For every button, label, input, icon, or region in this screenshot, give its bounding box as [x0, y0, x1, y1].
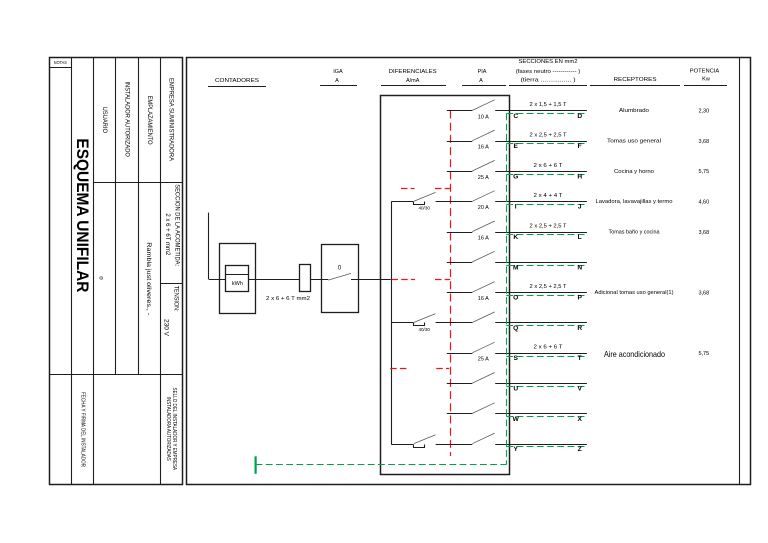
svg-text:o: o — [98, 276, 105, 280]
earth conductor row 7 (green dashed) — [506, 295, 587, 297]
svg-text:Z: Z — [578, 446, 582, 453]
svg-text:kWh: kWh — [232, 281, 243, 287]
svg-text:Adicional tomas uso general(1): Adicional tomas uso general(1) — [595, 290, 674, 296]
svg-text:0: 0 — [338, 265, 342, 271]
svg-text:2 x 2,5 + 2,5 T: 2 x 2,5 + 2,5 T — [530, 133, 568, 139]
svg-text:EMPLAZAMIENTO: EMPLAZAMIENTO — [146, 96, 153, 145]
svg-text:2 x 2,5 + 2,5 T: 2 x 2,5 + 2,5 T — [530, 223, 568, 229]
svg-text:M: M — [513, 264, 519, 271]
svg-text:PIA: PIA — [478, 69, 487, 75]
main branch switch — [391, 444, 413, 446]
earth conductor row 6 (green dashed) — [506, 265, 587, 267]
wire: entrance to meter — [209, 279, 226, 281]
earth conductor row 11 (green dashed) — [506, 416, 587, 418]
earth electrode — [255, 456, 257, 474]
phase bus — [391, 202, 393, 444]
svg-text:2 x 6 + 6 T mm2: 2 x 6 + 6 T mm2 — [266, 296, 310, 302]
svg-text:2 x 1,5 + 1,5 T: 2 x 1,5 + 1,5 T — [530, 102, 568, 108]
svg-text:25 A: 25 A — [478, 357, 489, 363]
svg-text:X: X — [577, 416, 582, 423]
svg-text:Rambla just oliveres., -: Rambla just oliveres., - — [145, 242, 152, 315]
branch circuit row 7: PIA breaker — [447, 292, 473, 294]
svg-text:FECHA Y FIRMA DEL INSTALADOR: FECHA Y FIRMA DEL INSTALADOR — [79, 392, 85, 467]
svg-text:2 x 4 + 4 T: 2 x 4 + 4 T — [534, 193, 564, 199]
svg-text:V: V — [577, 386, 582, 393]
branch circuit row 6: PIA breaker — [447, 262, 473, 264]
svg-text:Q: Q — [513, 325, 518, 332]
svg-text:N: N — [577, 264, 582, 271]
svg-text:DIFERENCIALES: DIFERENCIALES — [389, 69, 437, 75]
svg-text:3,68: 3,68 — [698, 290, 709, 296]
svg-text:Alumbrado: Alumbrado — [619, 108, 649, 114]
svg-text:J: J — [578, 204, 582, 211]
svg-text:3,68: 3,68 — [698, 230, 709, 236]
earth conductor row 3 (green dashed) — [506, 174, 587, 176]
svg-text:P: P — [577, 295, 582, 302]
svg-text:U: U — [513, 386, 518, 393]
svg-text:Kw: Kw — [702, 77, 710, 83]
svg-text:INSTALADORA AUTORIZADAS: INSTALADORA AUTORIZADAS — [165, 397, 171, 462]
svg-text:G: G — [513, 173, 518, 180]
meter kWh — [226, 266, 249, 292]
earth conductor row 12 (green dashed) — [506, 446, 587, 448]
switch IGA blade — [328, 273, 351, 280]
distribution panel enclosure — [381, 96, 510, 475]
svg-text:10 A: 10 A — [478, 114, 489, 120]
svg-text:16 A: 16 A — [478, 296, 489, 302]
svg-text:S: S — [513, 355, 518, 362]
svg-text:20 A: 20 A — [478, 205, 489, 211]
svg-text:L: L — [578, 234, 582, 241]
svg-text:Y: Y — [513, 446, 518, 453]
svg-text:C: C — [513, 113, 518, 120]
earth conductor row 10 (green dashed) — [506, 386, 587, 388]
earth conductor row 8 (green dashed) — [506, 325, 587, 327]
svg-text:Tomas baño y cocina: Tomas baño y cocina — [609, 229, 661, 235]
branch circuit row 2: PIA breaker — [447, 141, 473, 143]
svg-text:Lavadora, lavavajillas y termo: Lavadora, lavavajillas y termo — [596, 199, 673, 205]
svg-text:(tierra ................ ): (tierra ................ ) — [521, 78, 576, 84]
svg-text:K: K — [513, 234, 518, 241]
earth conductor row 4 (green dashed) — [506, 204, 587, 206]
differential breaker 40/30 — [391, 322, 413, 324]
branch circuit row 11: PIA breaker — [447, 413, 473, 415]
svg-text:I: I — [515, 204, 517, 211]
svg-text:2,30: 2,30 — [698, 109, 709, 115]
fuse F1 — [300, 265, 311, 292]
branch circuit row 8: PIA breaker — [472, 312, 494, 323]
svg-text:CONTADORES: CONTADORES — [215, 78, 259, 84]
svg-text:W: W — [513, 416, 520, 423]
svg-text:RECEPTORES: RECEPTORES — [614, 77, 657, 83]
svg-text:D: D — [577, 113, 582, 120]
svg-text:4,60: 4,60 — [698, 200, 709, 206]
svg-text:SECCIONES EN mm2: SECCIONES EN mm2 — [519, 59, 578, 65]
svg-text:5,75: 5,75 — [698, 351, 709, 357]
wire: IGA to bus — [351, 279, 391, 281]
neutral bus (red dashed) — [450, 111, 452, 457]
differential breaker 40/30 — [391, 201, 413, 203]
svg-text:POTENCIA: POTENCIA — [690, 69, 720, 75]
svg-text:3,68: 3,68 — [698, 139, 709, 145]
earth conductor row 9 (green dashed) — [506, 356, 587, 358]
svg-text:F: F — [578, 143, 582, 150]
svg-text:H: H — [577, 173, 582, 180]
branch circuit row 5: PIA breaker — [447, 232, 473, 234]
branch circuit row 1: PIA breaker — [447, 110, 473, 112]
neutral branch red dashed y188 — [401, 188, 415, 190]
svg-text:SECCION DE LA ACOMETIDA:: SECCION DE LA ACOMETIDA: — [174, 184, 181, 266]
svg-text:O: O — [513, 295, 518, 302]
svg-text:EMPRESA SUMINISTRADORA: EMPRESA SUMINISTRADORA — [167, 78, 174, 162]
svg-text:Cocina y horno: Cocina y horno — [614, 169, 654, 175]
earth bus bottom (green dashed) — [256, 464, 507, 466]
branch circuit row 3: PIA breaker — [447, 171, 473, 173]
svg-text:A: A — [335, 78, 339, 84]
svg-text:40/30: 40/30 — [418, 206, 430, 211]
svg-text:Tomas uso general: Tomas uso general — [607, 139, 661, 145]
svg-text:2 x 6 + 6 T: 2 x 6 + 6 T — [534, 345, 564, 351]
svg-text:2 x 6 + 6 T: 2 x 6 + 6 T — [534, 163, 564, 169]
svg-text:5,75: 5,75 — [698, 169, 709, 175]
neutral branch red dashed y279 — [392, 279, 416, 281]
wire: fuse to IGA — [310, 279, 328, 281]
svg-text:A/mA: A/mA — [406, 78, 420, 84]
earth conductor row 2 (green dashed) — [506, 143, 587, 145]
meter kWh outer enclosure — [220, 244, 256, 314]
earth conductor row 5 (green dashed) — [506, 234, 587, 236]
svg-text:IGA: IGA — [333, 69, 343, 75]
branch circuit row 9: PIA breaker — [447, 353, 473, 355]
svg-text:NOTAS: NOTAS — [54, 60, 67, 65]
svg-text:(fases neutro ------------ ): (fases neutro ------------ ) — [516, 69, 581, 75]
svg-text:TENSION:: TENSION: — [173, 286, 180, 312]
svg-text:2 x 6 + 6T mm2: 2 x 6 + 6T mm2 — [164, 213, 171, 256]
branch circuit row 4: PIA breaker — [472, 191, 494, 202]
svg-text:R: R — [577, 325, 582, 332]
branch circuit row 10: PIA breaker — [447, 383, 473, 385]
earth bus vertical (green dashed) — [506, 114, 508, 465]
svg-text:230 V: 230 V — [163, 319, 170, 337]
svg-text:25 A: 25 A — [478, 175, 489, 181]
svg-text:E: E — [513, 143, 518, 150]
svg-text:Aire acondicionado: Aire acondicionado — [604, 349, 665, 359]
svg-text:A: A — [479, 78, 483, 84]
svg-text:ESQUEMA UNIFILAR: ESQUEMA UNIFILAR — [73, 138, 91, 292]
wire: service entrance drop — [208, 213, 210, 280]
svg-text:USUARIO: USUARIO — [101, 107, 108, 134]
svg-text:INSTALADOR AUTORIZADO: INSTALADOR AUTORIZADO — [124, 81, 131, 157]
svg-text:2 x 2,5 + 2,5 T: 2 x 2,5 + 2,5 T — [530, 284, 568, 290]
svg-text:16 A: 16 A — [478, 145, 489, 151]
earth conductor row 1 (green dashed) — [506, 113, 587, 115]
branch circuit row 12: PIA breaker — [472, 433, 494, 444]
svg-text:T: T — [578, 355, 582, 362]
svg-text:16 A: 16 A — [478, 236, 489, 242]
switch IGA enclosure — [322, 245, 359, 313]
wire: meter to fuse — [249, 279, 299, 281]
svg-text:40/30: 40/30 — [418, 327, 430, 332]
neutral branch red dashed y368 — [390, 368, 409, 370]
